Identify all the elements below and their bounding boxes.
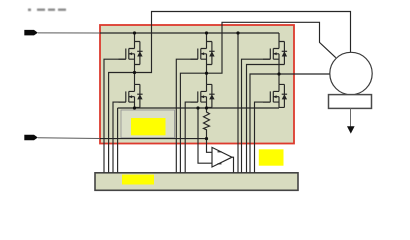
wire: low-side sources rail [118,107,279,109]
label box on power board [121,110,175,138]
node: sources rail sense tap [196,106,199,109]
yellow highlight label (power board) [131,118,166,135]
yellow highlight label (current sense) [259,149,284,165]
wire: phase A sense drop [109,73,135,173]
wire: Q3 gate to controller [176,59,198,172]
wire: column A drain/source [134,33,136,108]
faint title text fragments (top left) [28,9,66,12]
wire: op-amp output to controller [232,157,234,172]
node: phase A midpoint [133,71,136,74]
wire: Q6 gate to controller [255,102,271,172]
wire: phase C source sense drop [247,65,280,173]
transistor Q1 (phase A high side) [119,42,143,65]
wire: phase C to motor [279,73,330,75]
wire: DC return connector to ground rail [38,137,100,140]
wire: column C drain/source [278,33,280,108]
wire: Q4 gate to controller [185,102,198,172]
controller board (bottom bar) [95,173,298,191]
yellow highlight label (controller bar) [122,175,154,185]
wire: DC+ sense drop to controller [237,33,239,173]
resistor R shunt [204,108,210,139]
wire: ground rail [100,138,207,140]
DC+ input connector [24,30,38,36]
node: top rail junction phase B [205,31,208,34]
node: shunt bottom [205,137,208,140]
node: phase B midpoint [205,72,208,75]
wire: phase C sense drop [250,74,279,173]
ground arrow below motor [347,109,355,134]
transistor Q2 (phase A low side) [119,84,143,107]
node: top rail junction DC sense [236,31,239,34]
power stage board (red box) [100,25,294,144]
wire: shunt low side to op-amp plus [207,139,213,153]
wire: DC+ top rail [100,32,279,34]
wire: sources rail drop to controller [117,108,119,173]
motor M [330,52,372,94]
DC return input connector [24,135,38,141]
op-amp U1 current sense amplifier [212,147,232,167]
wire: shunt sense to op-amp minus [198,108,212,163]
wire: column B drain/source [206,33,208,108]
transistor Q4 (phase B low side) [191,84,215,107]
wire: Q2 gate to controller [113,102,126,172]
wire: phase A to top link [135,12,351,73]
wire: Q5 gate to controller [242,59,271,172]
wire: Q1 gate to controller [104,59,126,172]
transistor Q5 (phase C high side) [263,42,287,65]
node: top rail junction phase A [133,31,136,34]
transistor Q3 (phase B high side) [191,42,215,65]
motor load box [329,95,372,109]
wire: DC+ connector to bridge [38,32,100,34]
node: shunt top [205,106,208,109]
node: sources rail phase A [133,106,136,109]
wire: phase B link to motor [207,22,336,73]
wire: phase B sense drop [180,73,206,172]
transistor Q6 (phase C low side) [263,84,287,107]
node: phase C midpoint [277,72,280,75]
